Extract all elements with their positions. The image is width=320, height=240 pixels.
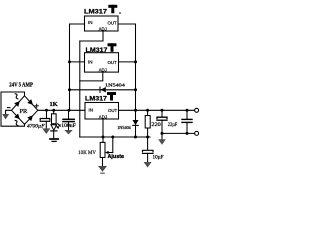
D3 label 1N5404 [117,125,131,130]
bridge diode bottom-left [14,114,20,120]
svg-text:22µF: 22µF [168,122,177,128]
pot wiper [105,137,113,154]
svg-text:24V 5 AMP: 24V 5 AMP [9,82,33,89]
svg-text:Ajuste: Ajuste [108,154,125,160]
U2 OUT wire [119,61,136,63]
output terminal minus [195,131,199,135]
U1 ADJ wire [80,31,103,41]
op-amp U3 LM317 box [85,103,119,120]
ground C3 [144,162,152,168]
U1 pin labels [88,20,117,31]
C4 label 22uF [168,122,177,128]
U2 label LM317 [86,47,109,54]
ground pot [98,166,107,174]
C3 label 10uF [153,156,164,161]
op-amp U1 LM317 box [85,16,119,31]
U1 TO-220 icon [108,5,120,14]
main output rail (left of U3) [38,109,85,111]
output terminal plus [195,108,199,112]
svg-text:IN: IN [89,108,94,113]
ground LED (bars) [50,139,58,141]
ground C4 [158,139,166,144]
svg-text:1N5404: 1N5404 [117,125,131,130]
main output rail (right of U3) [119,109,195,111]
svg-text:LM317: LM317 [85,95,108,102]
bridge rectifier PR [12,96,38,125]
minus sign [7,107,10,109]
AC squiggle top [15,94,18,99]
C1 label 4700uF [27,124,45,129]
R2 label 220 [151,122,161,128]
label Ajuste [108,154,125,160]
protection diode wire (out to in) [70,89,136,91]
capacitor C3 10uF [143,137,154,162]
ADJ bus bottom horizontal [80,136,150,138]
U3 ADJ wire [102,119,104,137]
svg-text:OUT: OUT [108,60,117,65]
U2 ADJ wire [80,72,103,81]
transformer secondary loop [1,92,25,126]
bridge diode top-left [14,101,20,107]
U2 pin labels [88,60,117,73]
junction dots [45,60,189,138]
capacitor C5 output [182,110,192,133]
C2 label 100nF [61,124,76,129]
left IN rail [70,24,85,110]
svg-text:IN: IN [88,20,93,25]
pot ground wire [102,158,104,167]
svg-text:LM317: LM317 [86,47,109,54]
ground C1 [42,128,50,134]
resistor R1 1K [52,110,57,124]
U3 pin labels [89,108,118,120]
U2 IN wire [70,61,85,63]
potentiometer 10K body [100,142,105,157]
label 24V 5 AMP [9,82,33,89]
svg-text:PR: PR [20,109,29,115]
ground C2 [64,130,72,134]
potentiometer 10K wire top [102,137,104,142]
bridge diode bottom-right [27,115,33,121]
capacitor C4 22uF [157,110,167,139]
U1 label LM317 [84,9,108,16]
LED arrows [56,124,61,129]
ground bus to output minus [162,132,195,134]
svg-text:100nF: 100nF [61,124,76,129]
resistor R2 220 [145,110,150,137]
svg-text:LM317: LM317 [84,9,108,16]
wire bridge minus to ground [6,110,12,114]
capacitor C2 100nF [63,110,74,130]
U2 TO-220 icon [108,43,117,52]
svg-text:1K: 1K [49,102,58,108]
diode D3 1N5404 vertical [133,110,139,137]
svg-text:220: 220 [151,122,161,128]
diode D1 1N5404 horizontal [100,87,106,92]
svg-text:10µF: 10µF [153,156,164,161]
LED D2 [51,125,57,139]
svg-text:OUT: OUT [108,108,117,113]
R1 label 1K [49,102,58,108]
AC squiggle bottom [15,120,18,125]
U3 label LM317 [85,95,108,102]
ground bridge [2,114,9,120]
plus sign [35,104,38,107]
svg-text:1N5404: 1N5404 [105,83,126,88]
ADJ bus vertical [79,41,81,137]
D1 label 1N5404 [105,83,126,88]
bridge diode top-right [27,99,33,105]
pot label 10K MV [78,151,96,156]
op-amp U2 LM317 box [85,53,119,72]
svg-text:IN: IN [88,60,93,65]
svg-text:4700µF: 4700µF [27,124,45,129]
capacitor C1 4700uF [40,110,50,128]
bridge label PR [20,109,29,115]
U3 TO-220 icon [107,92,116,101]
svg-text:10K MV: 10K MV [78,151,96,156]
right OUT rail [118,24,136,110]
svg-text:OUT: OUT [108,21,117,26]
